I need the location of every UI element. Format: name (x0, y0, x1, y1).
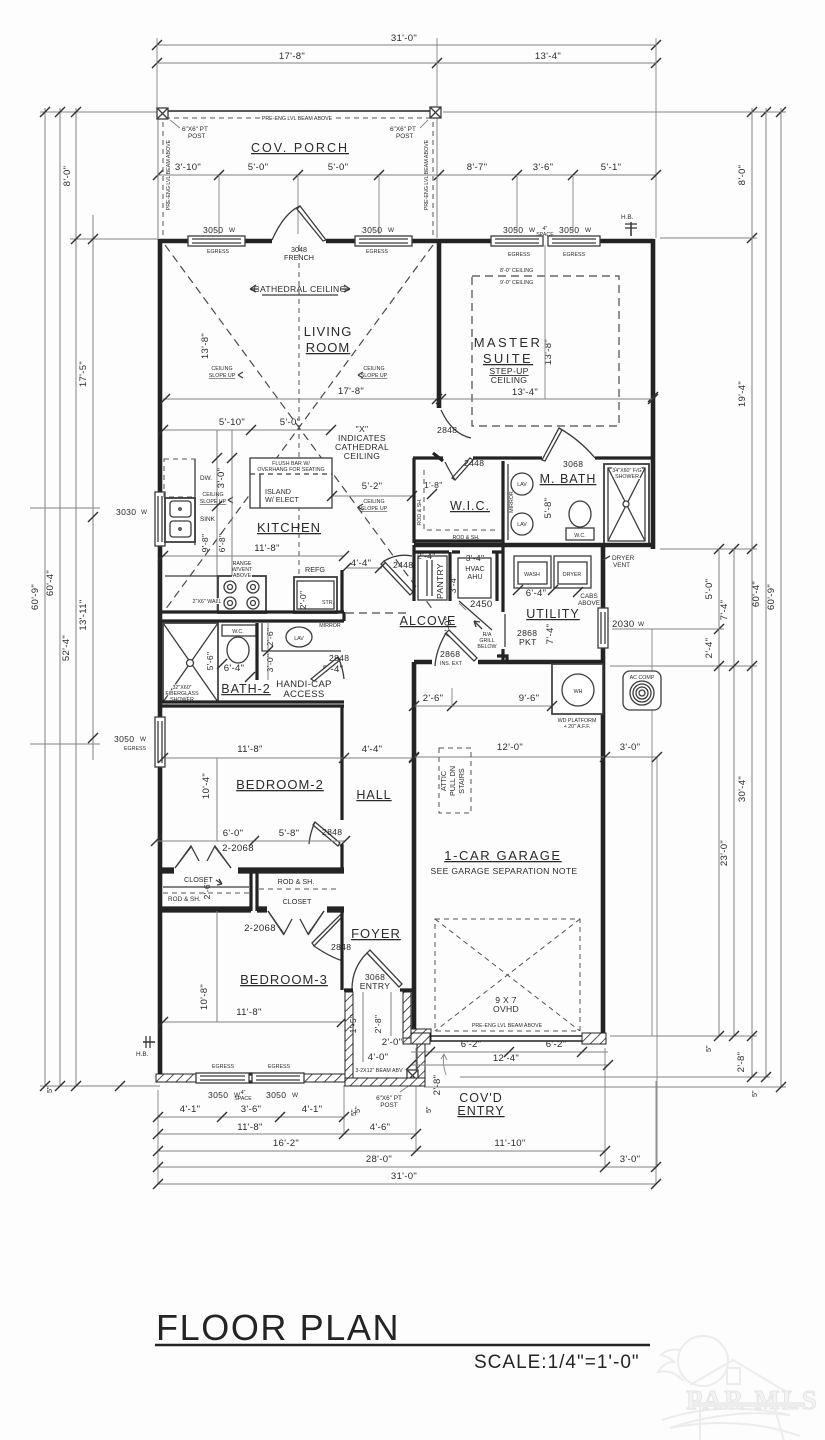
washer dryer (514, 556, 551, 588)
AC COMP (623, 671, 661, 710)
wall wic/mbath top (413, 456, 653, 459)
window 2030 utility (598, 608, 608, 648)
svg-text:ROD & SH.: ROD & SH. (417, 498, 423, 525)
left dim line 8'-0"/52'-4" (75, 108, 77, 1086)
svg-text:W.C.: W.C. (232, 629, 243, 635)
svg-text:W: W (638, 621, 645, 628)
svg-text:5": 5" (45, 1086, 54, 1093)
post 6x6 left (157, 108, 168, 119)
window 3050 porch right (355, 236, 412, 246)
right dim line 7'-4"/23'-0" (733, 549, 735, 1036)
svg-text:2030: 2030 (612, 619, 635, 630)
svg-text:5'-10": 5'-10" (219, 417, 245, 428)
wh platform (552, 664, 603, 714)
svg-text:ABOVE: ABOVE (578, 600, 600, 607)
svg-text:2848: 2848 (322, 827, 342, 837)
svg-text:7'-4": 7'-4" (719, 600, 730, 621)
svg-text:2448: 2448 (464, 458, 484, 468)
svg-text:STR.: STR. (322, 600, 334, 606)
2450 door hvac (459, 601, 492, 630)
window 3050 master 2 (548, 236, 600, 246)
svg-text:SEE GARAGE SEPARATION NOTE: SEE GARAGE SEPARATION NOTE (431, 866, 578, 876)
svg-text:3050: 3050 (266, 1090, 286, 1100)
mirror strip (507, 464, 509, 540)
svg-text:4'-1": 4'-1" (180, 1104, 201, 1115)
right dim line 8'-0"/19'-4"/30'-4"/2'-8" (751, 108, 753, 1077)
svg-text:17'-8": 17'-8" (279, 51, 305, 62)
svg-text:EGRESS: EGRESS (124, 746, 147, 752)
svg-text:W: W (585, 227, 592, 234)
svg-text:SLOPE UP: SLOPE UP (361, 373, 388, 379)
right dim line 60'-4" (765, 108, 767, 1077)
upper cabinets dashed (164, 459, 195, 497)
bed3 right wall / foyer left (340, 911, 343, 990)
stoop hatched jog (403, 1038, 430, 1044)
svg-text:PRE-ENG LVL BEAM ABOVE: PRE-ENG LVL BEAM ABOVE (472, 1023, 543, 1029)
svg-text:3050: 3050 (559, 225, 579, 235)
svg-text:3050: 3050 (208, 1090, 228, 1100)
svg-text:H.B.: H.B. (136, 1051, 149, 1058)
svg-text:POST: POST (396, 133, 413, 140)
svg-text:REFG: REFG (305, 565, 325, 574)
utility+garage right wall (601, 546, 606, 1040)
svg-text:11'-10": 11'-10" (494, 1138, 525, 1149)
garage bottom wall (411, 1033, 430, 1044)
svg-text:2'-4": 2'-4" (704, 638, 715, 659)
svg-text:+ 20" A.F.F.: + 20" A.F.F. (564, 724, 591, 730)
svg-text:3'-0": 3'-0" (265, 654, 275, 673)
svg-text:2"X6" WALL: 2"X6" WALL (193, 599, 222, 605)
svg-text:CEILING: CEILING (344, 451, 380, 461)
svg-text:7'-4": 7'-4" (545, 624, 556, 645)
svg-text:ABOVE: ABOVE (233, 573, 252, 579)
dim line 11'-8 / 4'-6 (158, 1133, 416, 1135)
pantry left wall (412, 545, 415, 601)
cathedral X diagonal 2 (165, 245, 433, 610)
svg-text:16'-2": 16'-2" (273, 1138, 299, 1149)
svg-text:6"X6" PT: 6"X6" PT (390, 126, 416, 133)
svg-text:POST: POST (188, 133, 205, 140)
svg-text:60'-4": 60'-4" (751, 581, 762, 607)
svg-text:5": 5" (353, 1106, 362, 1113)
svg-text:COV. PORCH: COV. PORCH (251, 141, 349, 155)
extension line 1087 (424, 1086, 786, 1088)
svg-text:31'-0": 31'-0" (391, 33, 417, 44)
svg-text:BEDROOM-3: BEDROOM-3 (240, 972, 328, 987)
cathedral center line (298, 245, 300, 610)
svg-text:5'-8": 5'-8" (543, 498, 554, 519)
svg-text:LAV: LAV (294, 636, 304, 642)
extension line house front left (70, 238, 158, 240)
10'-4 vertical dim (216, 758, 218, 841)
svg-text:W.C.: W.C. (574, 533, 585, 539)
right dim line 5'-0"/2'-4" (718, 549, 720, 1036)
svg-text:WH: WH (574, 689, 583, 695)
window 3050 left wall bed2 (155, 717, 165, 767)
svg-text:SPACE: SPACE (234, 1096, 252, 1102)
door 2848 bed3 (312, 915, 343, 961)
svg-text:6'-0": 6'-0" (223, 828, 244, 839)
kitchen/bath2 wall (160, 612, 344, 621)
svg-text:H.B.: H.B. (621, 214, 634, 221)
extension line porch front left (40, 111, 158, 113)
extension lines top (156, 38, 158, 112)
extension line garage bottom right (610, 1035, 757, 1037)
garage top wall (414, 660, 603, 665)
svg-text:W: W (229, 227, 236, 234)
svg-text:DW.: DW. (200, 475, 212, 482)
svg-text:POST: POST (380, 1102, 397, 1109)
svg-text:COV'D: COV'D (459, 1091, 503, 1105)
svg-text:CABS: CABS (580, 593, 597, 600)
svg-text:2'-8": 2'-8" (736, 1052, 747, 1073)
svg-text:6"X6" PT: 6"X6" PT (376, 1095, 402, 1102)
svg-text:BELOW: BELOW (477, 644, 496, 650)
closet top wall (bed2 bottom) (160, 869, 344, 872)
extension line porch front right (443, 111, 786, 113)
svg-text:5'-6": 5'-6" (205, 652, 215, 671)
svg-text:STAIRS: STAIRS (457, 768, 466, 794)
svg-text:EGRESS: EGRESS (366, 249, 389, 255)
mbath toilet (566, 501, 594, 540)
svg-text:MASTER: MASTER (474, 335, 543, 350)
door 2448 kitchen-alcove diagonal (381, 555, 413, 595)
svg-text:EGRESS: EGRESS (508, 252, 531, 258)
svg-text:2450: 2450 (470, 599, 493, 610)
refrigerator (294, 577, 337, 613)
svg-text:8'-7": 8'-7" (467, 162, 488, 173)
svg-text:3'-6": 3'-6" (241, 1104, 262, 1115)
master right wall (651, 239, 656, 549)
svg-text:9'-8": 9'-8" (200, 534, 210, 553)
svg-text:1'-8": 1'-8" (424, 480, 443, 490)
svg-text:3'-0": 3'-0" (620, 742, 641, 753)
post 6x6 right (430, 107, 441, 118)
svg-text:28'-0": 28'-0" (366, 1154, 392, 1165)
svg-text:3'-6": 3'-6" (533, 162, 554, 173)
svg-text:SINK: SINK (200, 516, 216, 523)
svg-text:5'-0": 5'-0" (248, 162, 269, 173)
bed3 window 1 (196, 1073, 249, 1083)
svg-text:10'-4": 10'-4" (201, 773, 212, 799)
H.B. bottom left (143, 1036, 155, 1048)
closet divider wall (249, 869, 252, 911)
svg-text:AHU: AHU (467, 572, 482, 581)
svg-text:2'-0": 2'-0" (382, 1037, 403, 1048)
svg-text:LAV: LAV (517, 482, 527, 488)
stoop bottom wall hatched (345, 1078, 425, 1086)
stoop right hatched wall upper (403, 992, 411, 1040)
svg-text:2'-6": 2'-6" (423, 693, 444, 704)
svg-text:13'-8": 13'-8" (200, 333, 211, 359)
svg-text:2868: 2868 (440, 649, 460, 659)
svg-text:W: W (292, 1092, 299, 1099)
svg-text:OVHD: OVHD (493, 1004, 519, 1014)
svg-text:BEDROOM-2: BEDROOM-2 (236, 777, 324, 792)
svg-text:DRYER: DRYER (612, 555, 635, 562)
svg-text:CEILING: CEILING (202, 492, 223, 498)
svg-text:8'-0": 8'-0" (737, 165, 748, 186)
svg-text:4'-4": 4'-4" (351, 558, 372, 569)
dim line 31'-0" top (157, 44, 656, 46)
svg-text:PRE-ENG LVL BEAM ABOVE: PRE-ENG LVL BEAM ABOVE (424, 139, 430, 210)
svg-text:W: W (140, 736, 147, 743)
svg-text:11'-8": 11'-8" (237, 744, 263, 755)
kitchen bottom counter (165, 575, 218, 577)
door 2848 living-master (441, 410, 471, 438)
svg-text:3050: 3050 (203, 225, 223, 235)
svg-text:SHOWER: SHOWER (615, 474, 639, 480)
bed2 bottom dim (156, 840, 345, 842)
svg-text:17'-8": 17'-8" (338, 386, 364, 397)
svg-text:SLOPE UP: SLOPE UP (209, 373, 236, 379)
svg-text:10'-8": 10'-8" (199, 984, 210, 1010)
svg-text:23'-0": 23'-0" (719, 840, 730, 866)
window 3030 left wall (155, 492, 165, 546)
svg-text:3050: 3050 (114, 734, 134, 744)
svg-text:3-2X12" BEAM ABV: 3-2X12" BEAM ABV (355, 1068, 403, 1074)
kitchen right wall (340, 570, 343, 612)
door 2868 ins ext alcove-garage (435, 630, 477, 666)
svg-text:8'-0": 8'-0" (62, 166, 73, 187)
svg-text:2-2068: 2-2068 (222, 843, 254, 854)
range (218, 576, 266, 613)
pantry/hvac front wall (414, 550, 503, 553)
door 2848 bed2 (309, 822, 340, 846)
svg-text:11'-8": 11'-8" (237, 1122, 263, 1133)
door 2848 bath2 (311, 657, 344, 681)
svg-text:OVERHANG FOR SEATING: OVERHANG FOR SEATING (257, 467, 324, 473)
svg-text:9'-0" CEILING: 9'-0" CEILING (500, 280, 533, 286)
svg-text:LIVING: LIVING (304, 324, 353, 339)
pantry box (418, 556, 447, 600)
hvac closet (495, 552, 498, 601)
right closet bottom wall (257, 908, 344, 911)
divider wall living/master (437, 239, 442, 408)
11'-8 / 4'-4 dim bed2 (163, 757, 414, 759)
svg-text:3'-10": 3'-10" (175, 162, 201, 173)
svg-text:PULL DN: PULL DN (448, 766, 457, 796)
svg-text:ROOM: ROOM (306, 340, 350, 355)
svg-text:2'-8": 2'-8" (373, 1015, 383, 1034)
svg-text:13'-4": 13'-4" (512, 387, 538, 398)
wall mbath bottom (414, 543, 653, 548)
svg-text:3'-4": 3'-4" (466, 553, 485, 563)
svg-text:PRE-ENG LVL BEAM ABOVE: PRE-ENG LVL BEAM ABOVE (262, 116, 333, 122)
svg-text:PAR MLS: PAR MLS (686, 1385, 819, 1415)
svg-text:4'-4": 4'-4" (362, 744, 383, 755)
dim line 31'-0 bottom (158, 1183, 656, 1185)
svg-text:3'-4": 3'-4" (448, 575, 458, 594)
cathedral bottom dashed (346, 612, 410, 614)
5'-10 / 5'-0 dim (163, 429, 331, 431)
svg-text:DRYER: DRYER (563, 572, 582, 578)
left closet bottom wall (160, 908, 251, 911)
svg-text:13'-11": 13'-11" (78, 599, 89, 630)
master window center line (544, 245, 546, 399)
porch front beam line (158, 110, 437, 112)
svg-text:2'-4": 2'-4" (417, 551, 436, 561)
svg-text:4'-0": 4'-0" (368, 1052, 389, 1063)
svg-text:3030: 3030 (116, 507, 136, 517)
master ceiling dashed rect (472, 276, 619, 426)
svg-text:CLOSET: CLOSET (283, 897, 312, 906)
svg-text:12'-0": 12'-0" (497, 742, 523, 753)
mbath lavs (511, 473, 533, 535)
svg-text:3050: 3050 (362, 225, 382, 235)
svg-text:SLOPE UP: SLOPE UP (200, 499, 227, 505)
svg-text:30'-4": 30'-4" (737, 776, 748, 802)
svg-text:3050: 3050 (503, 225, 523, 235)
svg-text:3'-0": 3'-0" (216, 468, 227, 489)
extension line master front right (660, 237, 757, 239)
mbath shower (604, 464, 649, 545)
svg-text:UTILITY: UTILITY (526, 607, 580, 621)
svg-text:W/ ELECT: W/ ELECT (265, 495, 300, 504)
svg-text:ROD & SH.: ROD & SH. (452, 535, 479, 541)
stoop left hatched wall (345, 992, 353, 1080)
cathedral X diagonal 1 (165, 245, 433, 610)
svg-text:2'-6": 2'-6" (265, 628, 275, 647)
bed2 right wall (340, 706, 343, 868)
svg-text:FLOOR PLAN: FLOOR PLAN (156, 1307, 400, 1348)
svg-text:PKT: PKT (519, 637, 537, 647)
svg-text:BATH-2: BATH-2 (221, 682, 271, 696)
5'-2 dim (332, 495, 412, 497)
4'-4 dim alcove (346, 567, 382, 569)
extension line garage top right (610, 665, 757, 667)
svg-text:W: W (388, 227, 395, 234)
svg-text:1-CAR GARAGE: 1-CAR GARAGE (444, 848, 561, 863)
svg-text:WASH: WASH (524, 572, 540, 578)
svg-text:W.I.C.: W.I.C. (450, 499, 490, 513)
svg-text:CEILING: CEILING (491, 375, 527, 385)
svg-text:ENTRY: ENTRY (360, 981, 390, 991)
svg-text:5": 5" (424, 1106, 433, 1113)
svg-text:31'-0": 31'-0" (391, 1171, 417, 1182)
attic stairs (439, 748, 471, 813)
svg-text:3068: 3068 (563, 459, 583, 469)
svg-text:W: W (529, 227, 536, 234)
svg-text:W: W (141, 509, 148, 516)
svg-text:ATTIC: ATTIC (439, 771, 448, 791)
svg-text:MIRROR: MIRROR (509, 491, 515, 513)
svg-text:9'-6": 9'-6" (519, 693, 540, 704)
12'-4 dim (411, 1064, 608, 1066)
svg-text:60'-4": 60'-4" (45, 570, 56, 596)
svg-text:6'-8": 6'-8" (217, 534, 227, 553)
svg-text:CEILING: CEILING (363, 499, 384, 505)
svg-text:INS. EXT: INS. EXT (440, 661, 463, 667)
pantry/hvac divider (448, 552, 451, 601)
svg-text:CEILING: CEILING (211, 366, 232, 372)
dim line 17'-8" / 13'-4" (157, 62, 656, 64)
svg-text:11'-8": 11'-8" (254, 543, 280, 554)
svg-text:FOYER: FOYER (351, 926, 401, 941)
svg-text:60'-9": 60'-9" (766, 584, 777, 610)
counter edge (194, 459, 196, 545)
svg-text:SPACE: SPACE (536, 232, 554, 238)
bifold doors left closet (175, 846, 231, 868)
svg-text:EGRESS: EGRESS (563, 252, 586, 258)
svg-text:2'-0": 2'-0" (298, 591, 308, 610)
svg-text:LAV: LAV (517, 522, 527, 528)
bifold doors right closet (268, 911, 324, 934)
left dim line 17'-5"/13'-11" (92, 215, 94, 760)
entry door 3068 (352, 950, 402, 989)
svg-text:M. BATH: M. BATH (540, 472, 597, 486)
svg-text:52'-4": 52'-4" (61, 635, 72, 661)
bed2 top wall (160, 702, 344, 706)
svg-text:PANTRY: PANTRY (435, 563, 445, 599)
garage left wall bottom jog hatched (411, 1029, 431, 1040)
svg-text:EGRESS: EGRESS (268, 1064, 291, 1070)
svg-text:5": 5" (704, 1045, 713, 1052)
svg-text:5": 5" (750, 1090, 759, 1097)
right dim line 60'-9" (780, 108, 782, 1087)
front wall master (437, 239, 654, 244)
left dim line 60'-4" (59, 108, 61, 1086)
garage left wall (412, 662, 417, 1030)
porch left beam line (157, 113, 159, 238)
svg-text:4'-6": 4'-6" (370, 1122, 391, 1133)
svg-text:19'-4": 19'-4" (737, 381, 748, 407)
svg-text:HALL: HALL (356, 788, 391, 802)
svg-text:6'-4": 6'-4" (224, 663, 245, 674)
bed3 window 2 (252, 1073, 304, 1083)
svg-text:17'-5": 17'-5" (78, 361, 89, 387)
dim line 28'-0 / 3'-0 (158, 1166, 656, 1168)
bath2 shower (163, 623, 218, 702)
svg-text:ROD & SH.: ROD & SH. (168, 896, 201, 903)
porch right beam line (436, 113, 438, 238)
svg-text:CATHEDRAL CEILING: CATHEDRAL CEILING (254, 284, 347, 294)
window 3050 master 1 (491, 236, 543, 246)
svg-text:2848: 2848 (329, 653, 349, 663)
svg-text:4'-1": 4'-1" (302, 1104, 323, 1115)
svg-text:11'-8": 11'-8" (236, 1007, 262, 1018)
svg-text:60'-9": 60'-9" (30, 584, 41, 610)
svg-text:6"X6" PT: 6"X6" PT (182, 126, 208, 133)
bath2 wc (222, 625, 256, 663)
left dim line 60'-9" (44, 108, 46, 1086)
watermark logo (658, 1336, 800, 1440)
svg-text:5'-1": 5'-1" (601, 162, 622, 173)
H.B. right (625, 222, 637, 236)
door 2448 wic (445, 458, 473, 480)
6'-2 6'-2 dim (411, 1051, 608, 1053)
extension line 1077 (460, 1076, 770, 1078)
svg-text:3'-0": 3'-0" (620, 1154, 641, 1165)
door 3068 mbath (542, 428, 595, 461)
svg-text:SLOPE UP: SLOPE UP (361, 506, 388, 512)
svg-text:KITCHEN: KITCHEN (257, 520, 321, 535)
wic rod dashed (424, 470, 497, 530)
extension verticals bottom (157, 1090, 159, 1184)
svg-text:ENTRY: ENTRY (457, 1104, 504, 1118)
svg-text:SCALE:1/4"=1'-0": SCALE:1/4"=1'-0" (474, 1352, 640, 1373)
svg-text:2-2068: 2-2068 (244, 923, 276, 934)
dim line 4'-1 3'-6 4'-1 (158, 1116, 344, 1118)
12'-0 / 3'-0 dim (414, 756, 657, 758)
svg-text:5'-8": 5'-8" (279, 828, 300, 839)
W.I.C. walls (412, 458, 415, 543)
sink unit (165, 498, 195, 542)
island (250, 458, 332, 508)
svg-text:2'-8": 2'-8" (432, 1075, 443, 1096)
svg-text:5'-2": 5'-2" (362, 481, 383, 492)
svg-text:2448: 2448 (393, 560, 413, 570)
